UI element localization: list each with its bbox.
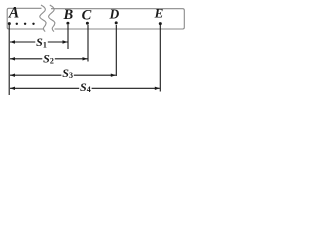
extension line from E [159, 25, 161, 92]
dimension line S4 [10, 87, 79, 89]
svg-text:D: D [109, 6, 120, 21]
svg-text:E: E [154, 6, 164, 21]
tape dot at C [86, 22, 89, 25]
extension line from B [67, 25, 69, 49]
extension line from C [87, 25, 89, 62]
tape break squiggle (right) [49, 5, 55, 32]
tape dot at E [159, 22, 162, 25]
svg-text:C: C [82, 7, 92, 23]
svg-text:2: 2 [50, 57, 54, 66]
svg-text:B: B [62, 7, 73, 23]
dimension line S3 [10, 74, 61, 76]
svg-text:1: 1 [43, 40, 47, 49]
tape dot at D [115, 21, 118, 24]
ellipsis dots on tape [16, 23, 18, 25]
extension line from A [8, 25, 10, 95]
svg-text:A: A [8, 4, 19, 21]
paper tape outline (right section) [51, 9, 184, 29]
tape dot at A [8, 22, 11, 25]
tape dot at B [66, 22, 69, 25]
tape break squiggle (left) [40, 5, 46, 32]
dimension line S1 [10, 41, 35, 43]
paper tape outline (left section) [7, 8, 43, 29]
svg-text:3: 3 [69, 71, 73, 80]
dimension line S2 [10, 58, 42, 60]
extension line from D [115, 25, 117, 76]
svg-text:4: 4 [87, 85, 91, 94]
